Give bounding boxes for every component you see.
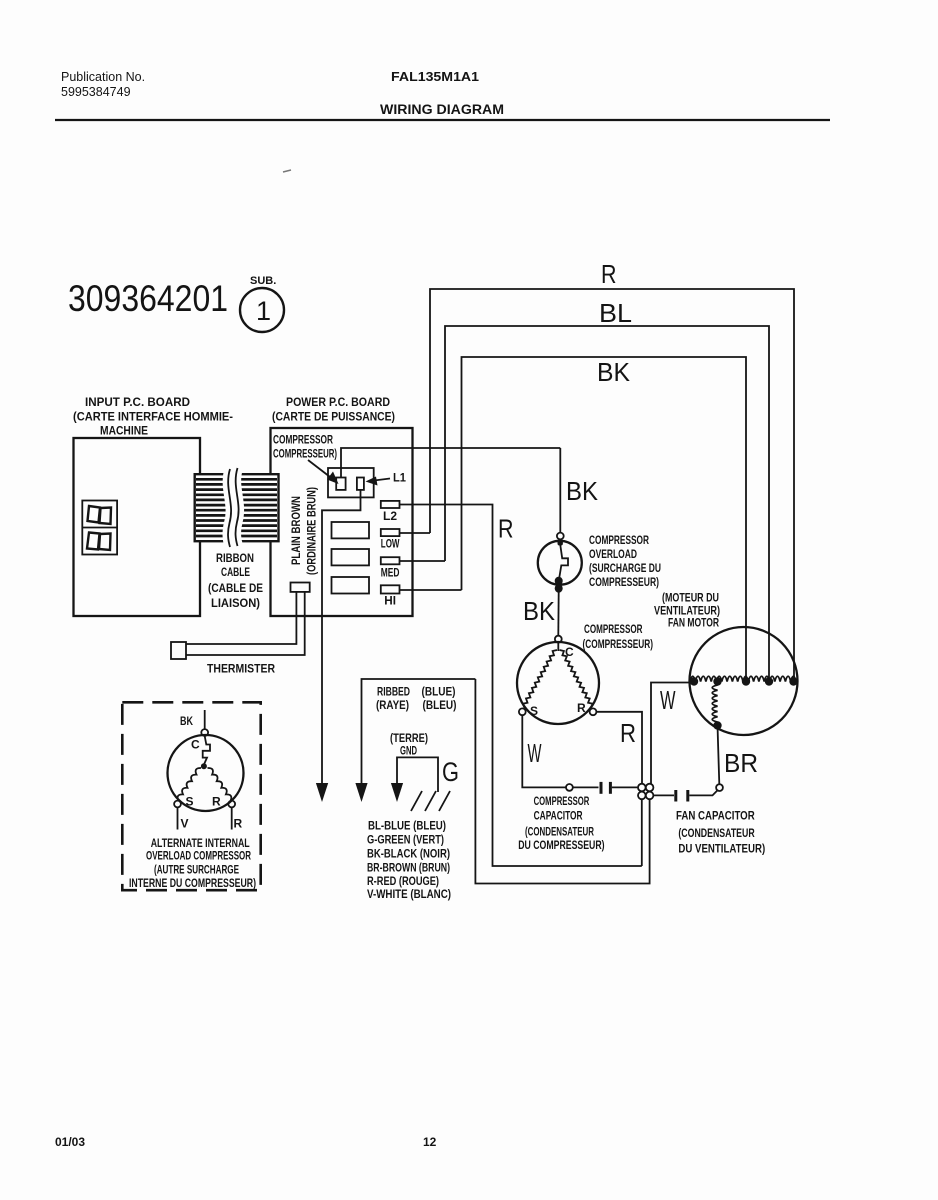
alt S terminal [174, 801, 181, 808]
alt winding right [208, 768, 232, 801]
svg-text:L1: L1 [393, 471, 406, 485]
svg-text:BR: BR [724, 748, 758, 778]
svg-text:OVERLOAD COMPRESSOR: OVERLOAD COMPRESSOR [146, 849, 251, 863]
wire overload to compressor C [557, 591, 559, 636]
svg-text:BK: BK [597, 357, 631, 387]
gnd bracket wires [397, 757, 438, 792]
svg-text:(CARTE INTERFACE HOMMIE-: (CARTE INTERFACE HOMMIE- [73, 410, 233, 424]
compressor capacitor wire to junction [612, 786, 638, 788]
junction cluster circles [638, 784, 653, 800]
terminal HI rect [381, 585, 400, 593]
alt wire R down [231, 807, 233, 829]
color legend [367, 819, 451, 902]
compressor run winding right [560, 650, 593, 708]
compressor winding start wire [557, 643, 559, 652]
display icon outer [82, 501, 117, 555]
arrow gnd [391, 783, 403, 802]
svg-text:(BLEU): (BLEU) [423, 698, 457, 712]
wire L2 to R down [400, 505, 642, 867]
svg-text:MED: MED [381, 566, 400, 580]
relay rect 1 on power board [332, 522, 370, 538]
svg-text:RIBBED: RIBBED [377, 685, 410, 699]
ground symbol [411, 791, 450, 811]
svg-text:R-RED (ROUGE): R-RED (ROUGE) [367, 874, 439, 888]
alt wire BK top [204, 710, 206, 729]
fan motor main winding [690, 676, 796, 681]
svg-text:SUB.: SUB. [250, 275, 276, 287]
svg-text:V: V [181, 817, 189, 831]
compressor overload top contact blob [558, 540, 563, 546]
svg-text:G: G [442, 757, 459, 787]
svg-text:(SURCHARGE DU: (SURCHARGE DU [589, 561, 661, 575]
svg-text:COMPRESSOR: COMPRESSOR [273, 433, 333, 447]
svg-text:V-WHITE (BLANC): V-WHITE (BLANC) [367, 887, 451, 901]
wire BR from aux winding down [718, 726, 720, 785]
svg-text:COMPRESSEUR): COMPRESSEUR) [589, 575, 659, 589]
svg-text:R: R [601, 259, 617, 289]
svg-text:(AUTRE SURCHARGE: (AUTRE SURCHARGE [154, 863, 239, 877]
compressor capacitor terminal circle [566, 784, 573, 791]
alt R terminal [228, 801, 235, 808]
compressor overload circle [538, 541, 582, 585]
svg-text:BR-BROWN (BRUN): BR-BROWN (BRUN) [367, 861, 450, 875]
svg-text:(CONDENSATEUR: (CONDENSATEUR [678, 826, 755, 840]
compressor overload bimetal element [559, 545, 568, 577]
svg-text:FAN MOTOR: FAN MOTOR [668, 616, 719, 630]
wire W from S to compressor capacitor [522, 715, 566, 787]
svg-text:FAN CAPACITOR: FAN CAPACITOR [676, 809, 755, 823]
relay rect 3 on power board [332, 577, 370, 594]
svg-text:01/03: 01/03 [55, 1135, 85, 1149]
wire junction bottom right to ribbed loop [475, 679, 649, 884]
svg-text:L2: L2 [383, 509, 397, 523]
label FAN CAPACITOR [676, 809, 765, 856]
svg-text:S: S [530, 704, 538, 718]
alt wire V down [177, 807, 179, 829]
svg-text:(ORDINAIRE BRUN): (ORDINAIRE BRUN) [305, 487, 319, 575]
svg-text:R: R [234, 817, 243, 831]
thermister wire upper [186, 592, 296, 644]
svg-text:PLAIN BROWN: PLAIN BROWN [289, 496, 303, 565]
wire R top horizontal [430, 289, 794, 681]
svg-text:S: S [186, 795, 194, 809]
terminal LOW rect [381, 529, 400, 536]
thermister wire lower [186, 592, 305, 655]
svg-text:LIAISON): LIAISON) [211, 596, 260, 610]
fan motor winding taps dots [690, 677, 798, 729]
wire W fan motor left [651, 683, 694, 784]
compressor overload top terminal [557, 533, 564, 540]
label COMPRESSOR CAPACITOR [518, 794, 604, 852]
compressor C terminal [555, 636, 562, 643]
wire MED to BL vertical [400, 560, 446, 562]
svg-text:DU COMPRESSEUR): DU COMPRESSEUR) [518, 838, 604, 852]
wire R from compressor R terminal to junction [596, 712, 642, 784]
wire BK from connector left terminal to overload [341, 448, 560, 478]
svg-text:BK: BK [523, 596, 556, 626]
svg-text:W: W [528, 738, 542, 768]
wire LOW to R vertical [400, 532, 431, 534]
svg-text:RIBBON: RIBBON [216, 551, 254, 565]
ribbon cable break curves [228, 468, 239, 547]
svg-text:BK-BLACK (NOIR): BK-BLACK (NOIR) [367, 847, 450, 861]
svg-text:C: C [191, 738, 200, 752]
arrow plain brown wire [316, 783, 328, 802]
ribbon cable conductor stripes [196, 479, 277, 536]
alt center dot [201, 763, 207, 769]
wire BK horizontal [462, 357, 747, 681]
connector terminal right [357, 478, 364, 490]
svg-text:POWER P.C. BOARD: POWER P.C. BOARD [286, 395, 390, 409]
svg-text:LOW: LOW [381, 537, 400, 551]
compressor motor circle [517, 642, 599, 724]
svg-text:(COMPRESSEUR): (COMPRESSEUR) [583, 637, 654, 651]
label COMPRESSOR OVERLOAD [589, 533, 661, 589]
svg-text:BL-BLUE (BLEU): BL-BLUE (BLEU) [368, 819, 446, 833]
alt winding left [178, 768, 201, 801]
connector terminal left [336, 478, 345, 490]
svg-text:DU VENTILATEUR): DU VENTILATEUR) [678, 842, 765, 856]
wire ribbed blue top horizontal [362, 679, 476, 783]
wire HI to BK vertical [400, 589, 462, 591]
svg-text:12: 12 [423, 1135, 437, 1149]
ribbon cable outline [195, 474, 279, 541]
svg-text:(MOTEUR DU: (MOTEUR DU [662, 591, 719, 605]
compressor overload bottom contact dots [555, 577, 563, 593]
input pc board box [74, 438, 201, 616]
wire BK vertical into overload [559, 448, 561, 533]
wire L1 terminal down-left and down (plain brown) [322, 490, 361, 783]
svg-text:(CONDENSATEUR: (CONDENSATEUR [525, 825, 594, 839]
svg-text:COMPRESSOR: COMPRESSOR [534, 794, 590, 808]
power pc board box [271, 428, 413, 616]
svg-text:(CARTE DE PUISSANCE): (CARTE DE PUISSANCE) [272, 410, 395, 424]
svg-text:COMPRESSOR: COMPRESSOR [584, 622, 643, 636]
svg-text:INPUT P.C. BOARD: INPUT P.C. BOARD [85, 395, 190, 409]
terminal MED rect [381, 557, 400, 564]
svg-text:INTERNE DU COMPRESSEUR): INTERNE DU COMPRESSEUR) [129, 876, 256, 890]
compressor S terminal [519, 708, 526, 715]
svg-text:R: R [498, 514, 514, 544]
svg-text:W: W [660, 685, 676, 715]
svg-text:COMPRESSOR: COMPRESSOR [589, 533, 649, 547]
svg-text:BL: BL [599, 298, 632, 328]
relay rect 2 on power board [332, 549, 370, 565]
sub revision circle [240, 288, 284, 332]
svg-text:R: R [577, 701, 586, 715]
svg-text:BK: BK [566, 476, 599, 506]
fan capacitor terminal circle [716, 784, 723, 791]
wire junction bottom left to R loop [641, 799, 643, 866]
svg-text:COMPRESSEUR): COMPRESSEUR) [273, 447, 337, 461]
svg-text:FAL135M1A1: FAL135M1A1 [391, 69, 479, 84]
stray scan mark [283, 170, 291, 172]
compressor connector box [328, 468, 374, 497]
compressor capacitor plates [601, 782, 610, 794]
fan motor aux winding vertical [712, 685, 717, 722]
svg-text:R: R [620, 718, 636, 748]
label ALTERNATE INTERNAL [129, 836, 256, 890]
compressor capacitor wire to plates [573, 786, 599, 788]
L1 annotation arrow [366, 477, 391, 486]
ribbon cable break gap [228, 468, 239, 547]
svg-text:G-GREEN (VERT): G-GREEN (VERT) [367, 833, 444, 847]
svg-text:CAPACITOR: CAPACITOR [534, 809, 583, 823]
alternate overload dashed box [122, 702, 260, 890]
arrow ribbed blue [355, 783, 367, 802]
alt C terminal [201, 729, 208, 736]
svg-text:OVERLOAD: OVERLOAD [589, 547, 637, 561]
fan capacitor wire to terminal [689, 790, 718, 796]
svg-text:R: R [212, 795, 221, 809]
svg-text:309364201: 309364201 [68, 278, 228, 319]
svg-text:THERMISTER: THERMISTER [207, 662, 275, 676]
compressor start winding left [523, 650, 557, 708]
header rule [55, 119, 830, 121]
svg-text:(CABLE DE: (CABLE DE [208, 581, 263, 595]
wire BL horizontal [445, 326, 769, 681]
compressor connector annotation arrow [308, 460, 339, 484]
svg-text:MACHINE: MACHINE [100, 424, 148, 438]
svg-text:1: 1 [256, 296, 271, 326]
thermister body [171, 642, 186, 659]
terminal L2 rect [381, 501, 400, 508]
compressor R terminal [590, 708, 597, 715]
svg-text:(BLUE): (BLUE) [422, 685, 456, 699]
alt compressor circle [168, 735, 244, 811]
svg-text:BK: BK [180, 714, 193, 728]
svg-text:5995384749: 5995384749 [61, 85, 131, 99]
svg-text:(RAYE): (RAYE) [376, 698, 409, 712]
svg-text:GND: GND [400, 744, 417, 758]
fan motor circle [690, 627, 798, 735]
alt overload bimetal [203, 736, 210, 764]
svg-text:CABLE: CABLE [221, 565, 250, 579]
svg-text:WIRING DIAGRAM: WIRING DIAGRAM [380, 102, 504, 117]
fan capacitor wire from junction [653, 794, 674, 796]
fan capacitor plates [676, 790, 688, 802]
label RIBBED (BLUE) [376, 685, 457, 713]
thermister connector rect on power board [291, 583, 310, 592]
svg-text:Publication No.: Publication No. [61, 70, 145, 84]
svg-text:HI: HI [384, 594, 396, 608]
